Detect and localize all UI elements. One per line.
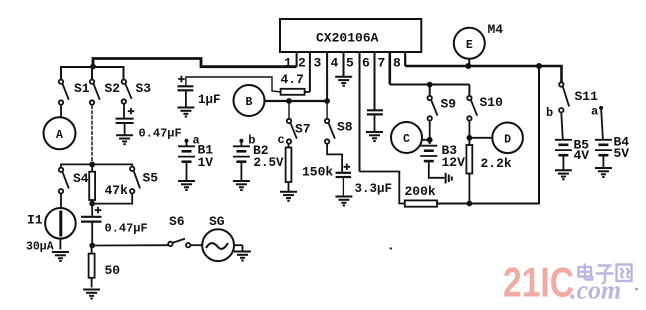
svg-text:2.2k: 2.2k	[481, 156, 512, 171]
battery B1	[178, 134, 213, 181]
wire thick top from bus to pin 1	[93, 59, 297, 68]
ground battery B5	[555, 170, 572, 179]
node junction S9 top	[427, 82, 433, 88]
meter B	[234, 85, 265, 116]
svg-text:SG: SG	[209, 214, 225, 229]
node junction right rail	[536, 63, 542, 69]
ground resistor 150k	[280, 192, 297, 201]
node junction bus-top	[90, 64, 96, 70]
node junction C B3	[427, 137, 433, 143]
pin 5	[346, 51, 360, 172]
capacitor pin 6	[367, 110, 383, 131]
wire pin 8 top rail	[405, 66, 561, 82]
ground battery B3 rotated	[446, 173, 452, 184]
svg-text:CX20106A: CX20106A	[316, 31, 379, 46]
ground cap 1uF	[177, 108, 194, 117]
battery B4	[591, 105, 629, 168]
ground battery B2	[233, 181, 250, 190]
svg-text:M4: M4	[488, 22, 504, 37]
ground generator SG	[234, 252, 251, 261]
svg-text:0.47µF: 0.47µF	[139, 127, 182, 141]
svg-text:.com: .com	[570, 276, 621, 305]
ground cap 0.47uF S3	[116, 135, 133, 144]
svg-text:D: D	[504, 133, 511, 146]
svg-text:12V: 12V	[442, 155, 466, 170]
ground resistor 50	[83, 290, 100, 299]
svg-text:3.3µF: 3.3µF	[355, 182, 393, 196]
watermark period	[635, 288, 638, 291]
resistor 200k	[405, 184, 438, 207]
ground cap 3.3uF	[335, 197, 352, 206]
svg-text:B: B	[246, 96, 253, 109]
wire 1uF top to resistor 4.7	[186, 77, 281, 92]
wire lower-left bus	[61, 164, 132, 171]
resistor 150k	[286, 144, 334, 191]
ground battery B1	[178, 181, 195, 190]
node junction 2.2k bottom	[467, 201, 473, 207]
pin 3	[314, 51, 328, 101]
svg-text:S2: S2	[105, 81, 121, 96]
switch S4	[59, 168, 69, 194]
svg-text:a: a	[591, 105, 598, 119]
wire S10 bottom to node	[468, 121, 470, 145]
wire node to meter C	[422, 139, 430, 141]
svg-text:1V: 1V	[198, 155, 214, 170]
svg-text:S10: S10	[480, 95, 504, 110]
svg-text:4: 4	[331, 56, 339, 71]
pin 6	[362, 51, 375, 110]
watermark chinese 电子网	[579, 264, 632, 284]
wire meter B to pin 3	[265, 100, 328, 102]
pin 7	[378, 51, 390, 85]
switch S6	[168, 239, 190, 248]
resistor 4.7	[281, 72, 310, 95]
svg-text:2.5V: 2.5V	[254, 156, 285, 170]
svg-text:200k: 200k	[405, 184, 436, 199]
switch S10	[467, 96, 477, 121]
node junction S7 top	[286, 98, 292, 104]
svg-text:S4: S4	[73, 171, 89, 186]
resistor 50	[89, 246, 121, 288]
wire pin 7 to S9 S10	[390, 85, 470, 96]
ground pin 4	[335, 77, 352, 86]
svg-text:7: 7	[378, 56, 386, 71]
pin 2	[298, 51, 310, 92]
meter A	[44, 105, 76, 149]
capacitor 0.47uF (under S3)	[116, 104, 135, 135]
svg-text:S8: S8	[337, 120, 353, 135]
switch S1	[59, 80, 69, 105]
svg-text:c: c	[278, 133, 285, 147]
battery B2	[233, 134, 284, 181]
generator SG	[191, 229, 243, 261]
svg-text:4V: 4V	[574, 148, 590, 163]
switch S5	[130, 167, 140, 194]
switch S9	[428, 96, 438, 121]
node junction pin 3	[324, 98, 330, 104]
svg-text:150k: 150k	[302, 165, 333, 180]
wire dashed S2 down	[91, 105, 93, 164]
node junction meter E	[465, 63, 471, 69]
svg-text:21IC: 21IC	[503, 259, 574, 306]
svg-text:S1: S1	[74, 81, 90, 96]
svg-text:S9: S9	[441, 97, 457, 112]
pin 8	[393, 51, 405, 71]
capacitor 0.47uF (lower)	[81, 204, 102, 246]
svg-text:6: 6	[362, 56, 370, 71]
svg-text:5: 5	[346, 56, 354, 71]
battery B3	[420, 143, 465, 178]
switch S2	[90, 80, 100, 105]
switch S3	[122, 80, 132, 104]
svg-text:2: 2	[298, 56, 306, 71]
meter E	[454, 28, 485, 66]
svg-text:47k: 47k	[105, 183, 129, 198]
svg-text:I1: I1	[27, 213, 43, 228]
wire 47k bottom stub	[91, 200, 93, 204]
svg-text:S5: S5	[143, 171, 159, 186]
op-amp U1 CX20106A IC body	[280, 19, 421, 52]
node junction cap bottom	[89, 243, 95, 249]
wire S9 bottom to node	[429, 121, 431, 144]
battery B5	[555, 113, 589, 170]
svg-text:A: A	[56, 129, 63, 142]
stray scan speck	[390, 248, 392, 250]
svg-text:30µA: 30µA	[26, 241, 54, 254]
svg-text:3: 3	[314, 56, 322, 71]
svg-text:b: b	[546, 106, 553, 120]
wire to S6	[92, 244, 168, 246]
ground battery B4	[595, 168, 612, 177]
svg-text:C: C	[403, 133, 410, 146]
wire bottom rail	[437, 66, 539, 204]
svg-text:S7: S7	[295, 122, 311, 137]
meter C	[391, 122, 422, 153]
meter D	[492, 123, 523, 154]
switch S8	[325, 101, 335, 144]
node junction D 2.2k	[467, 135, 473, 141]
svg-text:5V: 5V	[614, 146, 630, 161]
wire pin 5 to 200k	[360, 172, 405, 204]
node junction 47k bottom	[89, 201, 95, 207]
node junction lower bus	[89, 162, 95, 168]
svg-text:1: 1	[284, 56, 292, 71]
pin 1	[284, 51, 297, 71]
svg-text:S11: S11	[575, 89, 599, 104]
svg-text:1µF: 1µF	[198, 93, 221, 107]
switch S7	[287, 101, 297, 144]
svg-text:S6: S6	[169, 214, 185, 229]
svg-text:0.47µF: 0.47µF	[105, 222, 148, 236]
svg-text:8: 8	[393, 56, 401, 71]
meter I1	[45, 194, 76, 250]
resistor 47k	[89, 172, 128, 200]
wire top-left bus to S1 S2 S3	[61, 67, 124, 79]
svg-text:S3: S3	[136, 81, 152, 96]
ground cap pin 6	[366, 132, 383, 141]
wire S5 bottom to 47k bottom	[92, 194, 132, 204]
svg-text:4.7: 4.7	[281, 72, 304, 87]
switch S11	[559, 82, 569, 112]
capacitor 3.3uF	[327, 144, 351, 196]
svg-text:50: 50	[105, 263, 121, 278]
capacitor 1uF	[177, 76, 193, 107]
wire node to meter D	[469, 137, 492, 139]
resistor 2.2k	[466, 145, 512, 204]
pin 4	[331, 51, 344, 77]
svg-text:E: E	[466, 39, 473, 52]
ground meter I1	[52, 252, 69, 261]
